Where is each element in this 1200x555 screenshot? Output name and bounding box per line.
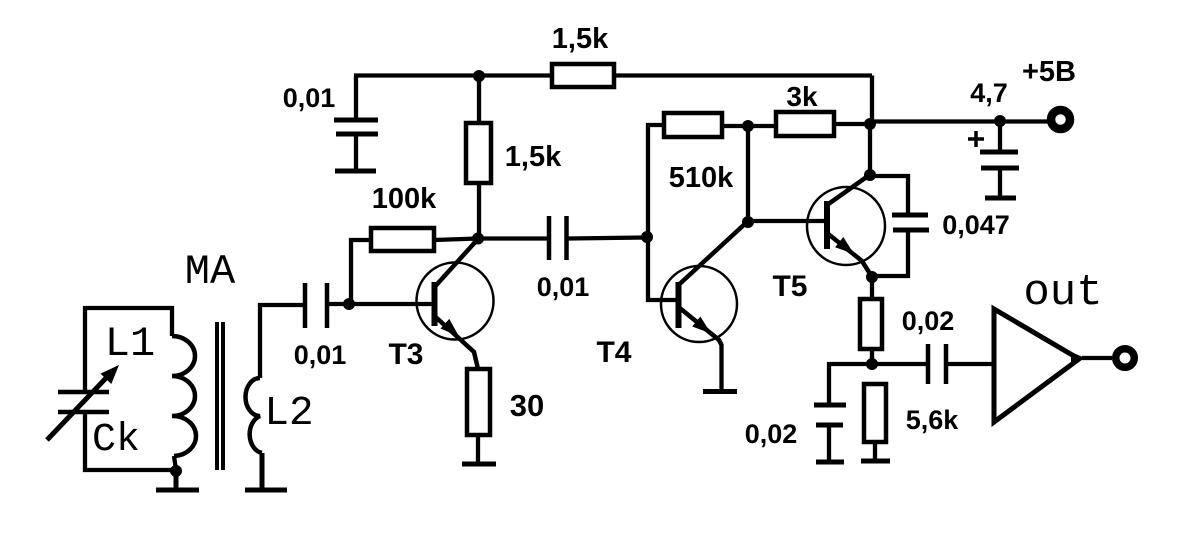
wire 100k right lead xyxy=(434,239,478,241)
wire 0,02 bottom stub xyxy=(827,425,831,460)
ground under 30 xyxy=(462,462,496,467)
transistor T5 emitter xyxy=(827,233,872,277)
svg-text:4,7: 4,7 xyxy=(970,78,1008,108)
transistor T4 emitter xyxy=(679,307,722,345)
node D (T4 base node) xyxy=(641,231,653,243)
terminal out xyxy=(1116,349,1135,368)
resistor 1,5k top xyxy=(552,64,614,87)
svg-text:L1: L1 xyxy=(105,320,155,368)
wire node C to T3 base xyxy=(349,302,432,306)
svg-text:0,02: 0,02 xyxy=(745,419,798,449)
transistor T4 circle xyxy=(661,266,737,342)
wire supply to +5B terminal xyxy=(870,119,1048,123)
wire 510k left lead and T4 base line xyxy=(648,125,676,300)
capacitor 0,01 interstage xyxy=(549,216,567,260)
node A on top rail xyxy=(473,70,485,82)
svg-text:1,5k: 1,5k xyxy=(552,23,609,55)
svg-text:510k: 510k xyxy=(669,162,734,194)
node G xyxy=(864,118,876,130)
wire emitter resistor to node K xyxy=(870,349,874,364)
svg-text:out: out xyxy=(1023,268,1102,318)
resistor T5 emitter xyxy=(860,299,882,349)
wire T4 emitter to ground xyxy=(719,344,723,389)
wire 0,047 bottom to node J xyxy=(872,230,908,276)
svg-text:L2: L2 xyxy=(264,391,313,437)
capacitor 0,02 output coupling xyxy=(928,344,946,384)
transistor T5 base bar xyxy=(824,201,830,249)
capacitor 4,7 electrolytic xyxy=(980,152,1019,168)
svg-text:T4: T4 xyxy=(596,336,631,369)
wire tank loop L1/Ck rectangle xyxy=(85,308,176,470)
svg-text:+5B: +5B xyxy=(1022,56,1076,88)
resistor 3k xyxy=(776,112,834,136)
terminal +5B xyxy=(1051,110,1070,129)
inductor L1 winding xyxy=(172,336,196,456)
Ck variable arrow head xyxy=(101,365,120,384)
transistor T5 emitter arrow xyxy=(835,237,854,254)
svg-text:0,01: 0,01 xyxy=(537,272,590,302)
capacitor 0,047 xyxy=(892,215,929,230)
wire node F to T5 base xyxy=(748,219,825,223)
resistor 1,5k vertical xyxy=(466,123,491,183)
wire T5 collector to 0,047 cap xyxy=(870,176,908,213)
transistor T3 base bar xyxy=(432,282,438,326)
svg-text:Ck: Ck xyxy=(92,418,140,463)
capacitor 0,01 input coupling xyxy=(305,283,327,328)
ground under 0,02 xyxy=(816,460,844,465)
capacitor 0,02 shunt xyxy=(814,405,846,425)
node I (T5 collector node) xyxy=(864,169,876,181)
wire node E down to node F xyxy=(746,126,750,222)
wire 30 bottom lead xyxy=(476,435,480,462)
transistor T3 emitter arrow xyxy=(441,319,460,337)
inductor L2 winding xyxy=(246,378,263,453)
wire node G down to node I xyxy=(868,124,872,175)
node K xyxy=(866,358,878,370)
transistor T3 circle xyxy=(417,263,494,340)
svg-text:5,6k: 5,6k xyxy=(906,405,960,435)
amplifier apex arrow xyxy=(1071,352,1085,364)
svg-text:0,02: 0,02 xyxy=(902,306,955,336)
svg-text:MA: MA xyxy=(185,248,236,296)
wire 510k right lead xyxy=(722,124,776,128)
svg-text:100k: 100k xyxy=(372,183,437,215)
transformer core MA xyxy=(217,322,223,470)
svg-text:0,047: 0,047 xyxy=(942,210,1010,240)
transistor T4 base bar xyxy=(676,282,682,328)
wire 4,7 top lead xyxy=(998,121,1002,150)
wire node K right to coupling cap xyxy=(872,362,926,366)
wire cap 0,01 top lead xyxy=(354,76,358,119)
wire 4,7 bottom stub xyxy=(998,168,1002,196)
transistor T3 emitter xyxy=(435,316,479,369)
node C (T3 base node) xyxy=(343,298,355,310)
ground under L2 xyxy=(245,453,287,490)
node F (T4 collector / T5 base node) xyxy=(742,216,754,228)
wire 1,5k to node B xyxy=(477,183,481,238)
resistor 5,6k xyxy=(864,384,886,442)
ground bar under 4,7 xyxy=(985,196,1016,201)
wire 5,6k bottom lead xyxy=(873,442,877,459)
wire 100k left lead xyxy=(351,240,371,302)
node tank-ground junction xyxy=(170,465,182,477)
transistor T3 collector xyxy=(435,239,479,287)
wire node K left to 0,02 cap xyxy=(829,364,872,403)
wire amplifier to out terminal xyxy=(1082,356,1112,360)
transistor T5 circle xyxy=(807,187,885,265)
wire mid cap to node D xyxy=(568,238,647,239)
transistor T5 collector xyxy=(827,176,868,205)
wire input cap to node C xyxy=(329,302,349,306)
wire 3k right lead xyxy=(834,122,870,126)
ground under T4 xyxy=(703,389,737,394)
wire top supply rail xyxy=(354,76,872,125)
svg-text:T3: T3 xyxy=(388,338,423,371)
transistor T4 collector xyxy=(679,222,748,285)
capacitor Ck (variable) plates xyxy=(58,392,109,412)
wire L2 top to input cap xyxy=(260,305,303,378)
svg-text:T5: T5 xyxy=(772,270,807,303)
ground under 5,6k xyxy=(861,459,890,464)
Ck variable arrow shaft xyxy=(47,377,107,440)
ground under L1 loop xyxy=(156,470,199,490)
svg-text:0,01: 0,01 xyxy=(283,83,336,113)
resistor 100k xyxy=(371,228,434,251)
capacitor 0,01 top-left xyxy=(334,120,378,134)
resistor 30 xyxy=(467,369,490,435)
wire node B to mid cap xyxy=(478,236,547,240)
transistor T4 emitter arrow xyxy=(692,317,711,334)
node B (T3 collector node) xyxy=(472,233,484,245)
wire node A to 1,5k resistor xyxy=(477,76,481,123)
node H (4,7 cap node) xyxy=(994,115,1006,127)
svg-text:0,01: 0,01 xyxy=(294,340,347,370)
ground bar under 0,01 xyxy=(335,169,376,174)
svg-text:1,5k: 1,5k xyxy=(505,141,562,173)
svg-text:3k: 3k xyxy=(786,81,818,112)
svg-text:30: 30 xyxy=(510,388,544,423)
op-amp output buffer triangle xyxy=(994,309,1079,422)
node E xyxy=(742,120,754,132)
wire cap 0,01 bottom stub xyxy=(354,134,358,169)
node J (T5 emitter node) xyxy=(866,271,878,283)
plus sign of 4,7 xyxy=(968,131,984,147)
wire node J to emitter resistor xyxy=(870,277,874,299)
resistor 510k xyxy=(664,113,722,137)
wire coupling cap to amplifier xyxy=(946,362,994,366)
